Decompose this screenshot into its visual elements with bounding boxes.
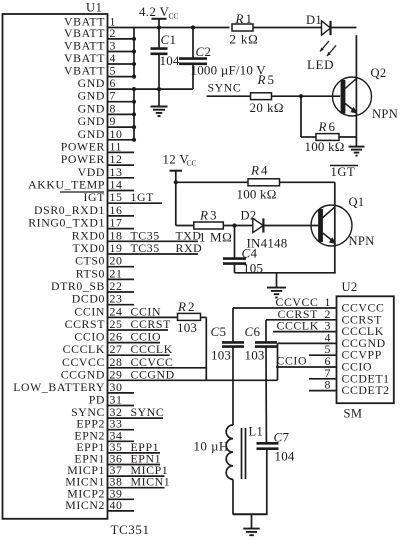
svg-text:NPN: NPN: [349, 234, 375, 248]
svg-text:NPN: NPN: [372, 107, 398, 121]
svg-text:SYNC: SYNC: [131, 405, 165, 419]
svg-text:CCGND: CCGND: [131, 367, 175, 381]
svg-text:100 kΩ: 100 kΩ: [237, 187, 277, 202]
svg-text:TC351: TC351: [111, 522, 150, 537]
svg-text:1000 µF/10 V: 1000 µF/10 V: [191, 63, 267, 78]
svg-text:C: C: [245, 324, 254, 339]
svg-text:CCDET2: CCDET2: [342, 383, 390, 397]
svg-text:2: 2: [205, 44, 212, 59]
svg-text:6: 6: [329, 119, 336, 134]
svg-text:8: 8: [325, 378, 332, 392]
svg-text:C: C: [161, 32, 170, 47]
svg-text:MICN2: MICN2: [65, 498, 105, 512]
svg-text:CC: CC: [169, 12, 179, 21]
svg-text:12 V: 12 V: [163, 152, 190, 167]
svg-text:1: 1: [246, 11, 253, 26]
svg-text:10 µH: 10 µH: [194, 439, 229, 454]
svg-text:TC35: TC35: [131, 241, 160, 255]
svg-text:Q1: Q1: [349, 195, 365, 209]
svg-text:1GT: 1GT: [131, 190, 155, 204]
svg-text:104: 104: [275, 449, 295, 464]
svg-text:CCIO: CCIO: [277, 354, 308, 368]
svg-text:LED: LED: [307, 57, 334, 72]
svg-text:L1: L1: [249, 425, 264, 439]
svg-text:U2: U2: [342, 280, 358, 294]
svg-text:103: 103: [245, 348, 265, 363]
svg-text:SYNC: SYNC: [208, 81, 242, 95]
svg-text:R: R: [257, 72, 267, 87]
svg-text:Q2: Q2: [371, 66, 387, 80]
svg-text:D1: D1: [306, 13, 322, 27]
svg-text:SM: SM: [344, 407, 363, 421]
svg-text:104: 104: [160, 53, 180, 68]
svg-text:3: 3: [210, 208, 217, 223]
svg-text:CCCLK: CCCLK: [277, 319, 319, 333]
svg-text:R: R: [250, 163, 260, 178]
svg-text:C: C: [274, 430, 283, 445]
svg-text:100 kΩ: 100 kΩ: [305, 139, 345, 154]
svg-text:103: 103: [211, 348, 231, 363]
svg-text:1: 1: [170, 32, 177, 47]
svg-text:4: 4: [261, 163, 268, 178]
svg-text:R: R: [177, 299, 187, 314]
svg-text:4: 4: [251, 246, 258, 261]
svg-text:C: C: [211, 324, 220, 339]
svg-text:1 MΩ: 1 MΩ: [199, 230, 232, 245]
svg-text:5: 5: [220, 324, 227, 339]
svg-text:7: 7: [283, 430, 290, 445]
svg-text:20 kΩ: 20 kΩ: [250, 100, 284, 115]
svg-text:103: 103: [177, 320, 197, 335]
svg-text:C: C: [242, 246, 251, 261]
svg-text:2: 2: [188, 299, 195, 314]
svg-text:R: R: [199, 208, 209, 223]
svg-text:U1: U1: [86, 1, 102, 15]
svg-text:4.2 V: 4.2 V: [139, 4, 169, 19]
svg-text:R: R: [318, 119, 328, 134]
svg-text:D2: D2: [241, 209, 257, 223]
svg-text:C: C: [196, 44, 205, 59]
svg-text:2 kΩ: 2 kΩ: [230, 32, 259, 47]
svg-text:5: 5: [268, 72, 275, 87]
svg-text:6: 6: [254, 324, 261, 339]
svg-text:CC: CC: [187, 159, 197, 168]
svg-text:R: R: [235, 11, 245, 26]
svg-text:1GT: 1GT: [331, 165, 356, 179]
